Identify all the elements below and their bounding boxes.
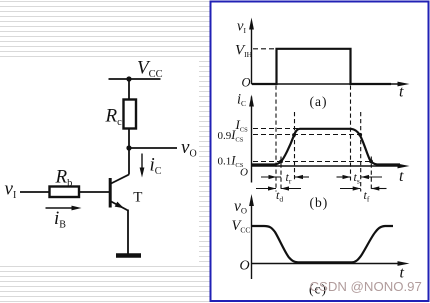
svg-text:t: t bbox=[399, 168, 404, 185]
svg-text:Rc: Rc bbox=[105, 106, 123, 129]
svg-text:O: O bbox=[242, 76, 251, 90]
svg-text:(a): (a) bbox=[310, 94, 328, 109]
svg-text:vI: vI bbox=[5, 178, 17, 201]
svg-text:O: O bbox=[240, 258, 250, 273]
svg-text:iB: iB bbox=[54, 208, 66, 231]
svg-text:O: O bbox=[240, 167, 248, 179]
svg-text:vO: vO bbox=[181, 137, 197, 160]
svg-text:VCC: VCC bbox=[137, 58, 163, 81]
svg-text:Rb: Rb bbox=[55, 167, 73, 190]
svg-text:CSDN @NONO.97: CSDN @NONO.97 bbox=[310, 279, 422, 294]
svg-text:(b): (b) bbox=[310, 195, 329, 210]
svg-text:T: T bbox=[133, 190, 142, 206]
svg-text:iC: iC bbox=[150, 155, 162, 178]
svg-text:t: t bbox=[399, 84, 404, 101]
